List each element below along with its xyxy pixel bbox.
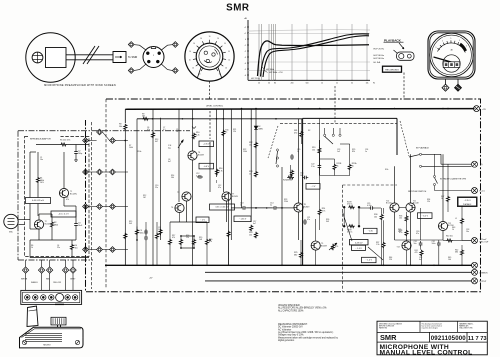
svg-text:4k7: 4k7 — [155, 141, 158, 143]
svg-text:IN "PAUSE" (CASSETTE OFF): IN "PAUSE" (CASSETTE OFF) — [440, 178, 466, 181]
svg-text:10k: 10k — [366, 83, 369, 85]
svg-text:1k: 1k — [225, 132, 227, 134]
supply rail second B+ — [137, 118, 303, 120]
svg-text:~ 1 V: ~ 1 V — [200, 220, 205, 222]
wire to terminal C — [134, 64, 146, 71]
connector rec out — [472, 238, 478, 244]
svg-text:DC Voltmeter 20000 O/V: DC Voltmeter 20000 O/V — [278, 326, 303, 329]
svg-text:1n5: 1n5 — [337, 151, 340, 153]
resistor R1 680k — [37, 177, 40, 184]
wire col 410 — [410, 154, 412, 203]
resistor R24 — [318, 209, 321, 216]
resistor R47 — [447, 196, 450, 203]
wire to terminal A — [134, 45, 146, 51]
svg-text:~1.35 V: ~1.35 V — [464, 200, 472, 202]
svg-text:HLP 80Hz: HLP 80Hz — [266, 69, 274, 71]
svg-text:5: 5 — [442, 41, 443, 43]
svg-text:-5: -5 — [244, 69, 246, 71]
svg-text:220k: 220k — [284, 201, 288, 203]
dashed vertical from dial region — [334, 86, 336, 124]
svg-text:47n: 47n — [307, 219, 310, 221]
box 0.46-1.85mV — [26, 198, 51, 204]
switch S1 contacts — [276, 149, 278, 151]
wire col 290 — [290, 165, 292, 177]
svg-text:R10b: R10b — [137, 151, 141, 153]
svg-text:Voltages may vary ± 10%.: Voltages may vary ± 10%. — [278, 334, 304, 337]
wire col 125 — [124, 141, 126, 266]
capacitor C32 — [438, 241, 440, 243]
svg-text:22u: 22u — [155, 187, 158, 189]
box ~1.65V — [234, 216, 251, 222]
connector strip — [21, 290, 82, 304]
svg-text:1k: 1k — [321, 83, 323, 85]
pin wires row4 — [88, 249, 96, 251]
dial tick marks — [201, 68, 203, 71]
junction dots rail2 — [152, 118, 154, 120]
VU meter scale ticks — [437, 48, 439, 49]
svg-text:10u: 10u — [158, 229, 161, 231]
svg-text:~ 2 V: ~ 2 V — [311, 186, 316, 188]
title block col lines top — [419, 321, 421, 332]
box ~2V — [306, 184, 320, 190]
strip contact 6 — [65, 295, 70, 300]
resistor R36 — [405, 215, 408, 222]
svg-text:47k: 47k — [209, 241, 212, 243]
svg-text:1k8: 1k8 — [199, 239, 202, 241]
resistor R13 — [255, 171, 258, 178]
recording box — [383, 66, 402, 72]
svg-text:+3V: +3V — [149, 278, 153, 280]
svg-text:5k: 5k — [351, 83, 353, 85]
pin b1 — [97, 129, 103, 135]
resistor R8 rail — [124, 124, 127, 131]
svg-text:~ 6.2 V: ~ 6.2 V — [422, 215, 429, 217]
screen dashed line b — [105, 99, 107, 289]
svg-text:IMPEDANCE ADAPTOR: IMPEDANCE ADAPTOR — [30, 138, 51, 141]
svg-text:-4: -4 — [244, 63, 246, 65]
transistor T10 — [390, 203, 399, 212]
svg-text:80: 80 — [274, 83, 276, 85]
svg-text:4n7: 4n7 — [419, 259, 422, 261]
microphone MIC — [4, 214, 18, 228]
svg-text:~ 1.65 V: ~ 1.65 V — [239, 219, 247, 221]
svg-text:390: 390 — [398, 231, 401, 233]
svg-text:BC148: BC148 — [413, 203, 419, 205]
resistor R11b — [222, 130, 225, 137]
svg-text:R5 22k 10%: R5 22k 10% — [60, 140, 71, 142]
svg-text:15k: 15k — [249, 144, 252, 146]
svg-text:5: 5 — [436, 47, 437, 49]
svg-text:BEFORE SCHEDULE: BEFORE SCHEDULE — [379, 325, 394, 327]
resistor R25 — [300, 252, 303, 259]
wire col 179 pot — [178, 109, 180, 202]
impedance adaptor chain box — [18, 131, 190, 260]
microphone capsule — [32, 52, 43, 63]
supply rail corner — [124, 109, 126, 123]
dial hub — [199, 46, 220, 67]
connector mid — [472, 188, 478, 194]
svg-text:470: 470 — [415, 252, 418, 254]
svg-text:L1: L1 — [455, 218, 457, 220]
capacitor C2 — [75, 150, 77, 152]
function switch — [397, 52, 415, 60]
svg-text:0.28 mV: 0.28 mV — [355, 243, 363, 245]
svg-text:2k: 2k — [336, 83, 338, 85]
svg-text:-2: -2 — [244, 51, 246, 53]
outer unit dashed boundary — [86, 99, 481, 292]
playback link dashed wire — [403, 73, 405, 100]
micro handle — [27, 306, 38, 327]
svg-text:3k3: 3k3 — [326, 221, 329, 223]
svg-text:47n: 47n — [218, 187, 221, 189]
svg-text:5: 5 — [459, 40, 460, 42]
transistor T12 — [438, 221, 447, 230]
capacitor C20 — [291, 154, 293, 156]
svg-text:10u: 10u — [466, 231, 469, 233]
resistor R2 — [51, 221, 54, 228]
transistor T1 — [59, 188, 68, 197]
svg-text:1u: 1u — [270, 205, 272, 207]
svg-text:WHITE: WHITE — [21, 278, 28, 280]
box ~1V — [196, 217, 209, 223]
svg-text:56k: 56k — [171, 177, 174, 179]
box 0.65mV — [210, 204, 235, 210]
svg-text:BC158: BC158 — [386, 203, 392, 205]
wire col 231 — [230, 109, 232, 240]
pin a4 — [83, 247, 89, 253]
inductor L1 — [461, 218, 464, 225]
svg-text:100k: 100k — [129, 147, 133, 149]
DIN pin 2 — [147, 60, 150, 63]
microphone cable — [66, 54, 113, 56]
resistor R194 — [193, 239, 196, 246]
svg-text:0: 0 — [245, 39, 246, 41]
svg-text:100u: 100u — [432, 243, 436, 245]
resistor R21B — [333, 164, 336, 171]
resistor R157 — [156, 233, 159, 240]
svg-text:MICROPHONE PREAMPLIFIER WITH: MICROPHONE PREAMPLIFIER WITH WIND SCREEN — [44, 84, 116, 87]
svg-text:R23A 680k: R23A 680k — [283, 179, 292, 182]
resistor R5 top — [60, 143, 67, 146]
ground rail — [105, 264, 472, 266]
pin c2 — [110, 169, 116, 175]
capacitor C22 — [318, 164, 320, 166]
resistor R10 — [193, 133, 196, 140]
wires board to plug diamonds — [25, 260, 27, 267]
svg-text:BC849: BC849 — [304, 206, 310, 208]
svg-text:1u: 1u — [297, 151, 299, 153]
svg-text:100p: 100p — [78, 153, 82, 155]
resistor R30 — [380, 214, 383, 221]
micro body — [20, 327, 84, 348]
DIN pin 5 — [156, 60, 159, 63]
svg-text:T5: T5 — [177, 192, 179, 194]
microphone with wind screen circle — [26, 33, 75, 82]
svg-text:680: 680 — [294, 254, 297, 256]
svg-text:3: 3 — [153, 55, 154, 57]
svg-text:10: 10 — [224, 43, 226, 45]
resistor R40 — [446, 239, 453, 242]
VU meter needle — [434, 57, 454, 63]
svg-text:12k: 12k — [186, 237, 189, 239]
resistor R137 — [136, 229, 139, 236]
graph gray gridlines — [248, 33, 370, 35]
svg-text:AC Voltmeter: AC Voltmeter — [278, 328, 292, 331]
svg-text:47u: 47u — [147, 129, 150, 131]
VU meter counter window — [443, 55, 460, 72]
transistor T7 — [222, 192, 231, 201]
resistor R170 — [169, 239, 172, 246]
connector +9V — [474, 106, 480, 112]
svg-text:HLP 80Hz + LTH: HLP 80Hz + LTH — [269, 72, 283, 74]
strip contact 3 — [41, 295, 46, 300]
svg-text:3k3: 3k3 — [129, 223, 132, 225]
graph vertical gridlines — [258, 24, 260, 80]
svg-text:(e.g Bruel & Kjaer type 2409: (e.g Bruel & Kjaer type 2409 / 2408 / W3… — [278, 331, 334, 334]
svg-text:0.47u: 0.47u — [196, 175, 201, 177]
transistor T9 — [311, 241, 320, 250]
svg-text:~ 1.4 V: ~ 1.4 V — [366, 260, 373, 262]
VU meter scale arc — [438, 43, 466, 53]
resistor R41 — [420, 250, 423, 257]
svg-text:10: 10 — [217, 38, 219, 40]
trimmer RV2 — [332, 244, 335, 251]
svg-text:MIC: MIC — [9, 232, 13, 234]
plug diamond red — [46, 267, 52, 273]
wire emitter line — [231, 207, 241, 209]
title block col lines mid — [429, 332, 431, 342]
terminal D — [172, 68, 178, 74]
svg-text:10%: 10% — [40, 182, 44, 184]
wire adaptor input — [29, 152, 31, 220]
svg-text:HLP 80 Hz: HLP 80 Hz — [374, 55, 385, 57]
dashed inner boundary record — [280, 123, 397, 125]
svg-text:B+1.5: B+1.5 — [480, 191, 486, 193]
box -0.6V — [51, 211, 76, 217]
junction dots rails — [152, 264, 154, 266]
svg-text:HLP 25 Hz: HLP 25 Hz — [251, 78, 260, 80]
svg-text:~ 1.4 V: ~ 1.4 V — [355, 248, 362, 250]
box ~6.2V — [418, 213, 433, 219]
terminal diamond right — [455, 84, 462, 91]
trimmer RV29 — [348, 225, 355, 228]
svg-text:RECORDING: RECORDING — [385, 70, 399, 72]
screen dashed line a — [91, 122, 93, 289]
svg-text:-3: -3 — [244, 57, 246, 59]
cable break marks — [83, 46, 95, 64]
svg-text:15k: 15k — [249, 234, 252, 236]
svg-text:5: 5 — [450, 38, 451, 40]
DIN connector face — [143, 47, 164, 68]
svg-text:1.5u: 1.5u — [311, 166, 315, 168]
VU meter red zone arc — [460, 44, 466, 51]
svg-text:12k: 12k — [233, 131, 236, 133]
resistor R251 — [250, 225, 253, 232]
wire to terminal D — [161, 64, 172, 71]
wire playback to B+ — [440, 154, 442, 164]
svg-text:RED: RED — [46, 278, 51, 280]
record level dial outer — [185, 32, 234, 81]
capacitor C16 — [304, 219, 306, 221]
svg-text:10u: 10u — [414, 243, 417, 245]
svg-text:PLAYBACK: PLAYBACK — [384, 38, 402, 42]
svg-text:COMMON: COMMON — [479, 272, 488, 274]
svg-text:HL F.A.: HL F.A. — [374, 61, 381, 64]
svg-text:10: 10 — [228, 59, 230, 61]
microphone body — [46, 48, 67, 68]
wire col 210 — [209, 111, 211, 139]
transistor T4 — [188, 151, 197, 160]
svg-text:1u: 1u — [240, 205, 242, 207]
resistor R15 — [159, 229, 162, 236]
svg-text:SMR: SMR — [380, 333, 397, 342]
connector B+ — [472, 161, 478, 167]
pin wires row2 — [88, 171, 96, 173]
svg-text:To SMR: To SMR — [128, 55, 137, 59]
svg-text:15k: 15k — [312, 149, 315, 151]
svg-text:47u: 47u — [416, 233, 419, 235]
strip contact 7 — [72, 295, 77, 300]
svg-text:HLP 80 Hz: HLP 80 Hz — [374, 58, 385, 60]
terminal A — [128, 42, 134, 48]
switch S4 pause — [433, 175, 435, 177]
svg-text:HLP 25 Hz: HLP 25 Hz — [374, 48, 385, 50]
wire col 434 upper — [434, 154, 436, 175]
pin c3 — [110, 204, 116, 210]
svg-text:22u: 22u — [57, 247, 60, 249]
svg-text:10k: 10k — [374, 216, 377, 218]
strip tab — [55, 303, 64, 305]
switch wires mid — [318, 145, 320, 147]
svg-text:-0.6 V: -0.6 V — [204, 166, 210, 168]
svg-text:470 lin: 470 lin — [347, 204, 352, 206]
pin a1 — [83, 138, 89, 144]
record level dial inner ring — [196, 43, 223, 70]
svg-text:11 7 73: 11 7 73 — [468, 336, 487, 342]
plug to SMR — [113, 52, 126, 63]
box -0.6V main — [199, 163, 214, 169]
capacitor C9b — [145, 235, 147, 237]
plug diamond white — [22, 267, 28, 273]
capacitor C12 — [197, 176, 199, 178]
resistor R9 on B+ rail — [142, 117, 149, 120]
terminal B — [172, 42, 178, 48]
svg-text:REC OUT: REC OUT — [480, 242, 490, 244]
VU meter bezel — [428, 31, 475, 79]
record dashed enclosure — [342, 185, 344, 292]
svg-text:0.65 ± 0.05 mV: 0.65 ± 0.05 mV — [216, 207, 230, 209]
svg-text:100u: 100u — [140, 232, 144, 234]
transistor T5 — [182, 192, 191, 201]
svg-text:200: 200 — [291, 83, 294, 85]
label impedance adaptor — [29, 136, 61, 141]
wire col 228 — [228, 192, 230, 265]
svg-text:1u: 1u — [176, 131, 178, 133]
junction dot grid — [180, 235, 182, 237]
svg-text:100: 100 — [448, 259, 451, 261]
title block row lines — [377, 331, 487, 333]
svg-text:MANUAL LEVEL CONTROL: MANUAL LEVEL CONTROL — [380, 349, 473, 356]
svg-text:BC149C: BC149C — [70, 193, 78, 195]
svg-text:+2: +2 — [244, 27, 246, 29]
box playback offset — [458, 197, 478, 207]
svg-text:log: log — [168, 147, 171, 149]
svg-text:0921105000: 0921105000 — [431, 335, 467, 342]
svg-text:IN PLAYBACK: IN PLAYBACK — [416, 146, 430, 149]
capacitor C15 — [302, 177, 304, 179]
svg-text:(1): (1) — [480, 164, 483, 166]
switch S2 contacts — [324, 134, 326, 136]
svg-text:ALL RESISTORS ALLEN-BRADLEY VI: ALL RESISTORS ALLEN-BRADLEY VIEW ± 5% — [278, 307, 326, 310]
svg-text:T6: T6 — [171, 207, 173, 209]
capacitor C31 — [420, 241, 422, 243]
micro grille — [25, 333, 62, 335]
svg-text:Measurement taken with cartrid: Measurement taken with cartridge removed… — [278, 336, 339, 339]
junction wires mid — [181, 235, 194, 237]
svg-text:10uF: 10uF — [78, 225, 83, 227]
svg-text:MICRO: MICRO — [43, 344, 51, 346]
impedance adaptor pcb dashed box — [25, 137, 90, 257]
resistor R37 — [382, 242, 385, 249]
curve HLP 80 Hz + LTH — [263, 36, 369, 77]
wire to terminal B — [161, 45, 172, 51]
svg-text:1k: 1k — [337, 165, 339, 167]
svg-text:4u7: 4u7 — [253, 223, 256, 225]
capacitor C3 — [75, 222, 77, 224]
svg-text:1k5: 1k5 — [75, 247, 78, 249]
capacitor C9 — [145, 229, 147, 231]
graph x ticks — [258, 80, 260, 82]
svg-text:OA90: OA90 — [258, 127, 263, 130]
svg-text:150k: 150k — [243, 151, 247, 153]
pin b2 — [97, 169, 103, 175]
svg-text:2.2k: 2.2k — [196, 134, 200, 136]
capacitor C13 — [241, 207, 243, 209]
micro screw right — [75, 340, 79, 344]
dial link dashed wire — [209, 81, 211, 98]
svg-text:-0.6 ± 0.1 V: -0.6 ± 0.1 V — [58, 214, 69, 216]
svg-text:OUTPUT: OUTPUT — [479, 281, 487, 283]
resistor R38 — [405, 230, 408, 237]
wire col 192 — [192, 109, 194, 151]
svg-text:S2: S2 — [308, 130, 310, 132]
adaptor wires — [29, 220, 31, 230]
svg-text:500: 500 — [306, 83, 309, 85]
svg-text:S2b: S2b — [385, 169, 388, 171]
graph frame — [247, 20, 249, 80]
svg-text:BC849: BC849 — [198, 154, 204, 156]
pin a2 — [83, 169, 89, 175]
title block frame — [377, 321, 487, 355]
wire col 282 — [281, 167, 283, 265]
resistor R181 — [180, 239, 183, 246]
dial yoke lines — [198, 67, 202, 77]
svg-text:56k: 56k — [119, 126, 122, 128]
wires right stage — [420, 208, 422, 240]
wire col 153 — [152, 109, 154, 266]
DIN pin 1 — [146, 52, 149, 55]
svg-text:680k: 680k — [54, 224, 58, 226]
svg-text:680: 680 — [455, 252, 458, 254]
resistor R4 — [71, 244, 74, 251]
output line — [205, 280, 472, 282]
svg-text:10: 10 — [193, 43, 195, 45]
svg-text:1k: 1k — [452, 229, 454, 231]
VU meter face — [430, 33, 474, 77]
svg-text:R40 1k0: R40 1k0 — [446, 236, 453, 238]
resistor R23A horizontal — [287, 176, 294, 179]
svg-text:0.33u: 0.33u — [367, 205, 372, 207]
